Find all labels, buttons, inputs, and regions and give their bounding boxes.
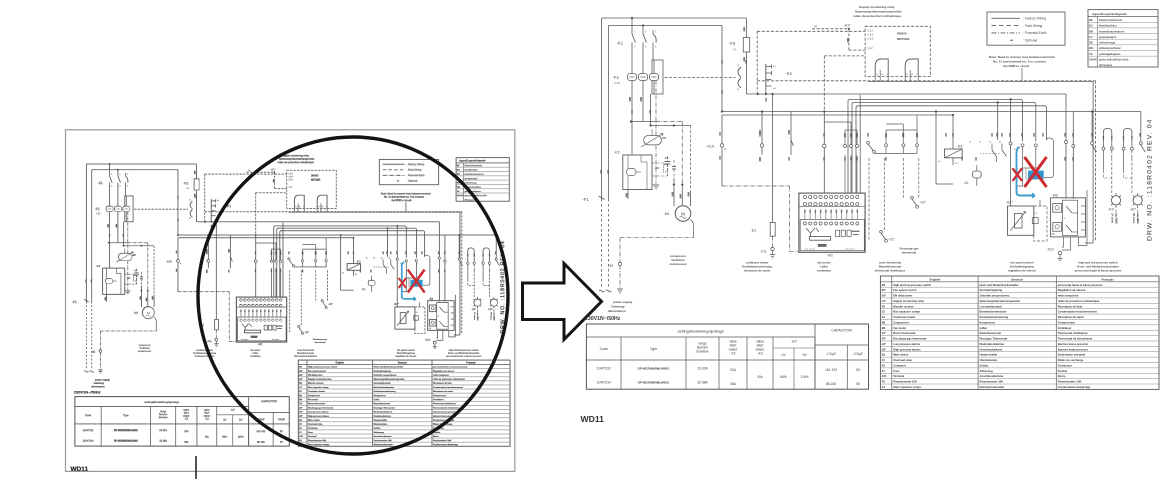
wire leader below page bbox=[195, 456, 197, 479]
page frame left bbox=[66, 130, 515, 472]
arrow zoom bbox=[523, 264, 602, 340]
annotation circle bbox=[198, 137, 508, 454]
schematic enlarged right bbox=[581, 5, 1160, 424]
